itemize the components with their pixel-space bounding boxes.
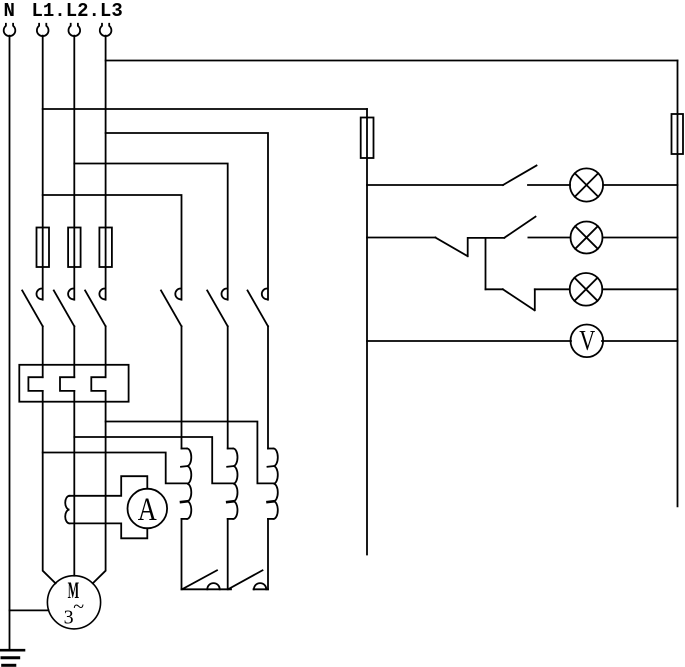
wire L3 vertical upper [105, 36, 107, 300]
wire L2 below KM1 [73, 326, 75, 377]
lamp branch 1 wire [367, 184, 503, 186]
wire motor tap V to winding 2 [74, 437, 233, 483]
wire N vertical [9, 36, 11, 650]
wire lamp 1 to right bus [603, 184, 677, 186]
wire to lamp 3 [535, 288, 570, 290]
voltmeter branch wire [367, 340, 571, 342]
wire L1 below KM1 [42, 326, 44, 377]
contact KM1 phase 3 [85, 289, 106, 327]
svg-text:A: A [138, 492, 157, 528]
wire L3 top feeder to right bus [106, 60, 678, 62]
wire TA to ammeter bottom [70, 523, 148, 538]
wire L3 branch to KM2 phase 3 [106, 133, 268, 300]
svg-text:~: ~ [73, 596, 84, 618]
FR heater element phase 3 [91, 377, 105, 391]
wire KM2 phase 1 to winding 1 [181, 326, 183, 448]
wire L2 vertical upper [73, 36, 75, 300]
svg-text:3: 3 [64, 607, 74, 629]
voltmeter V [571, 325, 604, 358]
wire L1 feeder to lamp bus [43, 108, 367, 110]
contact KM3 a [182, 570, 232, 589]
contact KM3 b [229, 570, 269, 589]
ammeter A [128, 489, 168, 529]
fuse FU5 [672, 114, 684, 154]
ground [0, 650, 24, 665]
lamp HL3 [570, 273, 603, 306]
fuse FU4 [361, 118, 374, 159]
wire W to motor [93, 391, 106, 584]
autotransformer winding T2 [227, 449, 237, 519]
autotransformer winding T3 [268, 449, 278, 519]
wire lamp 2 to right bus [603, 237, 678, 239]
fuse FU1 [37, 228, 50, 268]
svg-text:V: V [579, 326, 595, 357]
wire KM2 phase 3 to winding 3 [267, 326, 269, 448]
wire U to motor [43, 391, 56, 584]
autotransformer winding T1 [181, 449, 191, 519]
lamp branch 2 wire [367, 237, 435, 239]
switch contact lamp 2 [504, 217, 535, 238]
wire voltmeter to right bus [602, 340, 678, 342]
FR heater element phase 2 [60, 377, 74, 391]
wire L3 below KM1 [105, 326, 107, 377]
wire motor tap W to winding 3 [106, 422, 274, 484]
terminal L3 [100, 24, 112, 36]
svg-text:L1.L2.L3: L1.L2.L3 [32, 0, 123, 22]
thermal overload relay FR box [19, 365, 128, 402]
fuse FU3 [99, 228, 112, 268]
wire KM2 phase 2 to winding 2 [227, 326, 229, 448]
wire L1 vertical upper [42, 36, 44, 300]
switch contact lamp 3 [503, 289, 535, 310]
terminal N [4, 24, 16, 36]
contact KM1 phase 1 [22, 289, 43, 327]
wire motor tap U to winding 1 [43, 453, 187, 484]
contact KM2 phase 2 [207, 289, 228, 327]
contact KM2 phase 1 [161, 289, 182, 327]
wire motor frame to N [10, 609, 49, 611]
wire winding 1 lower [181, 519, 183, 589]
switch contact lamp 1 [503, 166, 537, 186]
wire to lamp 2 [528, 237, 570, 239]
wire V to motor [73, 391, 75, 576]
wire TA to ammeter top [70, 476, 148, 496]
lamp circuit left bus [366, 109, 368, 555]
lamp HL2 [571, 222, 603, 254]
lamp branch 3 stub [486, 288, 503, 290]
wire winding 2 lower [227, 519, 229, 589]
FR heater element phase 1 [28, 377, 42, 391]
node labels N L1. L2. L3 [4, 0, 123, 22]
fuse FU2 [68, 228, 81, 268]
changeover link lamp2 [435, 238, 504, 257]
motor M 3~ [47, 576, 100, 629]
wire winding 3 lower [267, 519, 269, 589]
wire L1 branch to KM2 phase 1 [43, 195, 182, 300]
current transformer TA secondary [65, 496, 69, 524]
svg-text:N: N [4, 0, 15, 22]
terminal L1 [37, 24, 49, 36]
changeover bar [485, 238, 487, 289]
contact KM1 phase 2 [54, 289, 75, 327]
lamp circuit right bus [677, 61, 679, 507]
wire lamp 3 to right bus [602, 288, 677, 290]
terminal L2 [69, 24, 81, 36]
wire L2 branch to KM2 phase 2 [74, 164, 227, 300]
wire to lamp 1 [528, 184, 570, 186]
lamp HL1 [570, 168, 603, 201]
contact KM2 phase 3 [248, 289, 269, 327]
